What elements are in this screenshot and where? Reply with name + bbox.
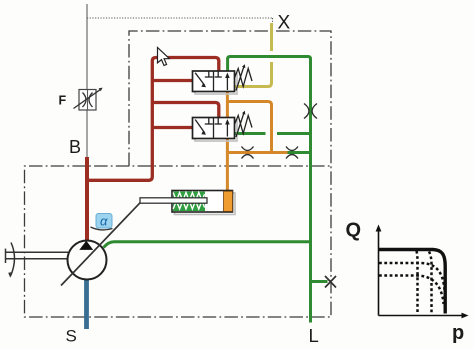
svg-text:p: p <box>452 322 464 344</box>
svg-text:L: L <box>309 325 319 346</box>
svg-text:F: F <box>59 94 67 108</box>
svg-text:S: S <box>66 327 77 346</box>
svg-text:Q: Q <box>346 220 362 242</box>
svg-text:α: α <box>100 214 108 229</box>
svg-text:B: B <box>69 137 81 157</box>
svg-text:X: X <box>278 13 291 34</box>
